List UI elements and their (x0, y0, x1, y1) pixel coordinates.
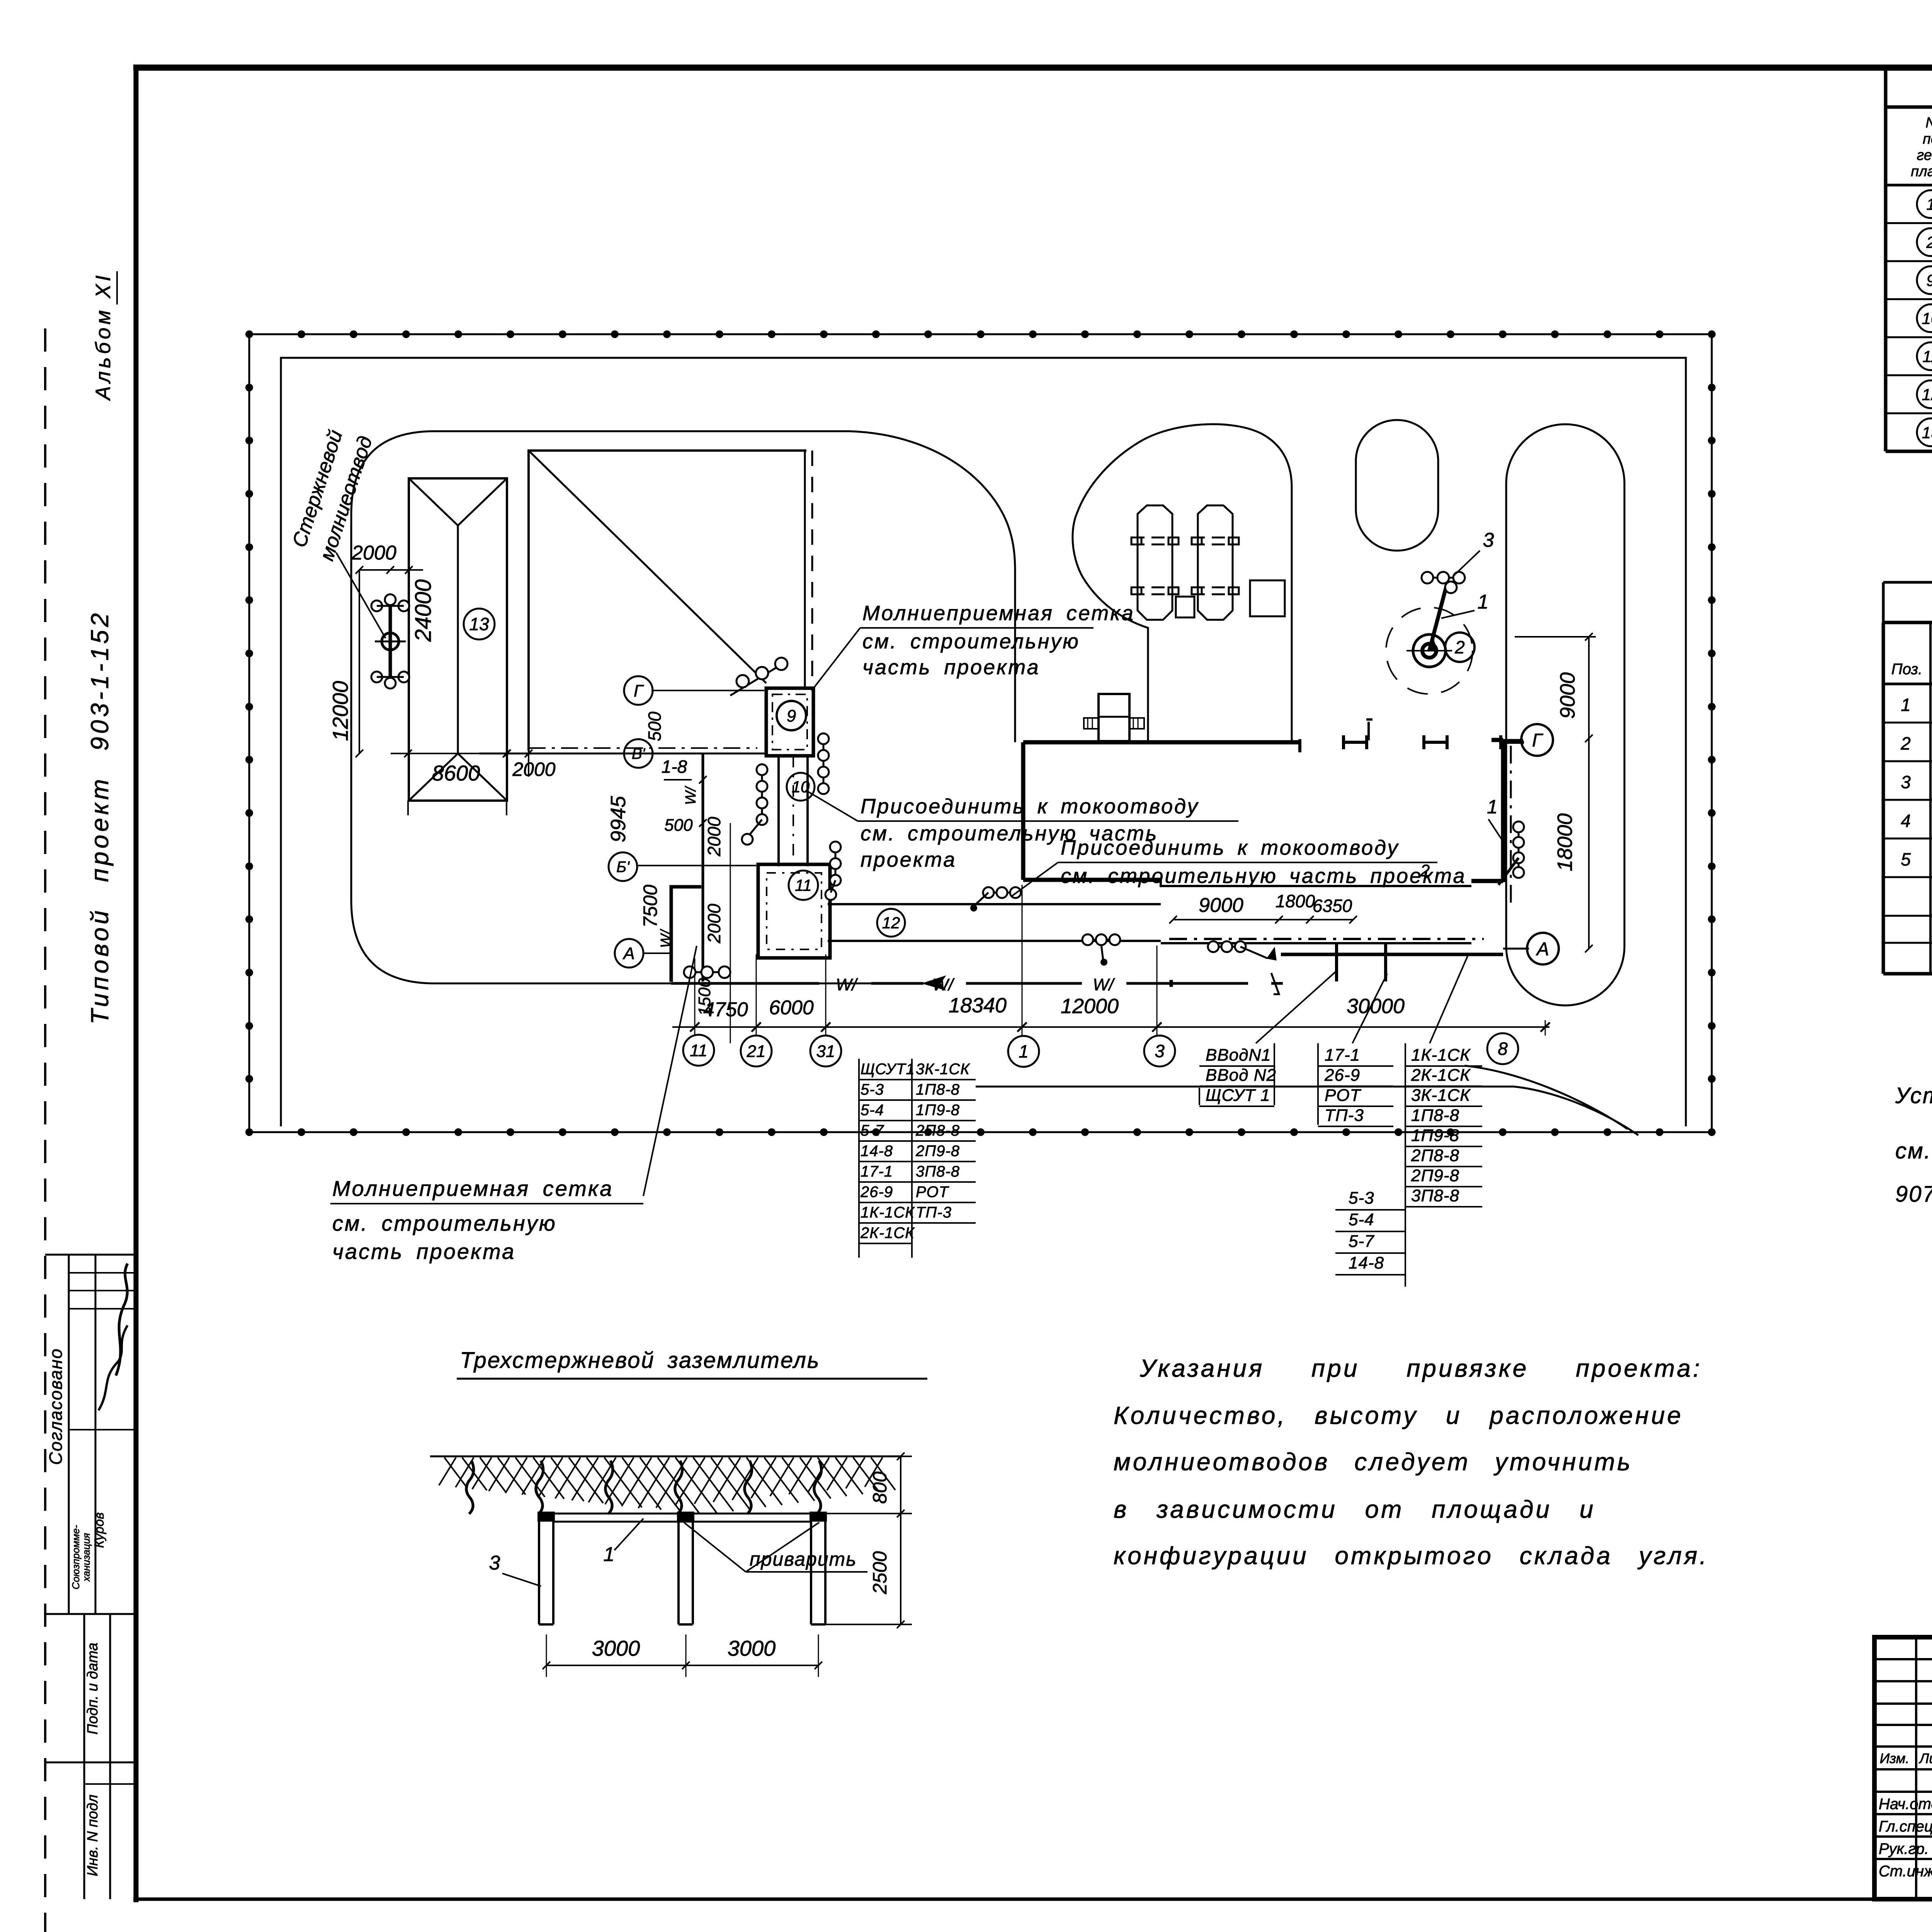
chain near W1 middle (988, 892, 1015, 894)
wing protrusion below building (1335, 943, 1338, 981)
svg-text:3: 3 (489, 1552, 500, 1574)
chain near 12000 (1088, 939, 1115, 941)
title block (1874, 1637, 1932, 1899)
svg-text:Рук.гр.: Рук.гр. (1879, 1840, 1929, 1857)
transformer symbol on top edge (1099, 694, 1129, 741)
signature squiggle (116, 1264, 128, 1376)
svg-text:4750: 4750 (703, 998, 748, 1021)
leader to rod (336, 553, 386, 638)
svg-text:ген-: ген- (1917, 147, 1932, 163)
svg-text:ЩСУТ1: ЩСУТ1 (861, 1061, 915, 1078)
svg-text:2К-1СК: 2К-1СК (1411, 1066, 1471, 1085)
svg-text:2000: 2000 (351, 542, 396, 564)
svg-text:3000: 3000 (592, 1636, 640, 1660)
explication row 1 (1917, 190, 1932, 218)
ground surface line (430, 1456, 902, 1458)
svg-text:проекта: проекта (861, 848, 956, 871)
svg-text:Союзпромме-: Союзпромме- (70, 1525, 82, 1589)
svg-text:1: 1 (1926, 195, 1932, 213)
svg-text:18340: 18340 (949, 994, 1007, 1017)
dashed gallery edge on right of square (804, 451, 806, 688)
leaders from boxes up to plan (1256, 970, 1338, 1043)
small tick above axis (1367, 722, 1370, 740)
svg-text:11: 11 (690, 1041, 707, 1060)
svg-text:в зависимости от площади: в зависимости от площади и (1114, 1495, 1595, 1523)
building 1 right edge (1501, 740, 1505, 882)
svg-text:5: 5 (1901, 849, 1911, 869)
circled 10 (787, 773, 815, 801)
svg-text:Куров: Куров (92, 1512, 107, 1548)
svg-text:ТП-3: ТП-3 (916, 1204, 952, 1221)
svg-text:3000: 3000 (728, 1636, 776, 1660)
svg-text:Типовой проект 903-1-152: Типовой проект 903-1-152 (86, 610, 114, 1024)
svg-text:см. в строительной части: см. в строительной части типового проект… (1895, 1138, 1932, 1163)
svg-text:6350: 6350 (1313, 896, 1352, 916)
svg-text:2П8-8: 2П8-8 (915, 1122, 960, 1139)
svg-text:Согласовано: Согласовано (46, 1348, 66, 1465)
svg-text:Подп. и дата: Подп. и дата (85, 1643, 101, 1735)
svg-text:2000: 2000 (704, 816, 724, 857)
svg-text:11: 11 (1922, 347, 1932, 366)
big square building with diagonal (529, 451, 806, 751)
building 1 left edge (1021, 742, 1026, 880)
svg-text:3П8-8: 3П8-8 (916, 1163, 960, 1180)
svg-text:Ст.инж.: Ст.инж. (1879, 1863, 1932, 1880)
explication row 11 (1917, 342, 1932, 370)
circled 13 (464, 609, 495, 639)
road loop (left) (351, 431, 905, 983)
svg-text:В': В' (632, 745, 646, 762)
building 1 lower wing (1161, 880, 1471, 886)
svg-text:14-8: 14-8 (1349, 1253, 1384, 1272)
svg-text:ВВод N2: ВВод N2 (1206, 1066, 1276, 1085)
svg-text:1: 1 (1478, 591, 1489, 613)
svg-text:W/: W/ (683, 786, 699, 805)
svg-text:3К-1СК: 3К-1СК (1411, 1086, 1471, 1105)
small square between hoppers (1176, 597, 1194, 617)
svg-text:Трехстержневой заземлитель: Трехстержневой заземлитель (460, 1348, 820, 1373)
svg-text:2: 2 (1420, 861, 1430, 880)
inner fence line (281, 358, 1686, 1126)
W1 cable route bottom (671, 982, 819, 985)
svg-text:молниеотводов следует уточ: молниеотводов следует уточнить (1114, 1448, 1633, 1476)
svg-text:А: А (622, 944, 634, 963)
svg-text:1П8-8: 1П8-8 (1411, 1106, 1459, 1125)
svg-text:Нач.отд.: Нач.отд. (1879, 1796, 1932, 1813)
svg-text:W/: W/ (1093, 975, 1115, 994)
svg-text:2000: 2000 (512, 759, 555, 780)
svg-text:5-7: 5-7 (861, 1122, 884, 1139)
svg-text:1П8-8: 1П8-8 (916, 1081, 960, 1098)
svg-text:N: N (1925, 115, 1932, 131)
svg-text:2: 2 (1454, 637, 1465, 657)
svg-text:2: 2 (1900, 733, 1911, 753)
svg-text:10: 10 (792, 778, 810, 796)
svg-text:2500: 2500 (869, 1551, 891, 1594)
road stadium right (1506, 424, 1624, 1005)
svg-text:12: 12 (882, 914, 900, 932)
building 11 crushing section (758, 864, 830, 958)
connecting strip (539, 1513, 825, 1515)
svg-text:18000: 18000 (1553, 813, 1577, 871)
explication row 13 (1917, 418, 1932, 446)
svg-text:7500: 7500 (639, 884, 661, 927)
svg-text:6000: 6000 (769, 997, 814, 1019)
svg-text:8: 8 (1498, 1039, 1508, 1059)
svg-text:9: 9 (1926, 271, 1932, 289)
axis circles left side (624, 676, 653, 705)
svg-text:Инв. N подл: Инв. N подл (85, 1794, 101, 1876)
svg-text:24000: 24000 (411, 579, 436, 642)
svg-text:Поз.: Поз. (1891, 661, 1923, 678)
svg-text:9: 9 (787, 706, 796, 725)
svg-text:1: 1 (604, 1543, 615, 1566)
svg-text:1800: 1800 (1276, 891, 1315, 911)
svg-text:Альбом XI: Альбом XI (92, 272, 115, 401)
explication row 10 (1917, 304, 1932, 332)
svg-text:Молниеприемная сетка: Молниеприемная сетка (862, 602, 1135, 625)
rod lightning arrester symbol (sterzhnevoy molnieotvod) (389, 602, 392, 681)
svg-text:2П8-8: 2П8-8 (1411, 1146, 1459, 1165)
svg-text:часть проекта: часть проекта (332, 1239, 515, 1264)
hoppers in blob (1138, 505, 1172, 620)
dims 9000 1800 6350 inside wing (1173, 919, 1353, 920)
road island blob (1073, 424, 1292, 742)
svg-text:Указания при привязке про: Указания при привязке проекта: (1139, 1354, 1702, 1382)
road oval (1356, 420, 1438, 551)
svg-text:4: 4 (1901, 811, 1911, 831)
svg-text:1К-1СК: 1К-1СК (1411, 1046, 1471, 1065)
svg-text:W/: W/ (836, 975, 858, 994)
svg-text:1-8: 1-8 (662, 757, 687, 777)
chain near building 3 mark (1213, 946, 1240, 948)
svg-text:ТП-3: ТП-3 (1325, 1106, 1364, 1125)
svg-text:1П9-8: 1П9-8 (1411, 1126, 1459, 1145)
dimension chain bottom (672, 1026, 1549, 1028)
svg-text:Гл.спец.: Гл.спец. (1879, 1818, 1932, 1835)
svg-text:2: 2 (1926, 233, 1932, 252)
svg-text:17-1: 17-1 (1325, 1046, 1360, 1065)
explication row 9 (1917, 266, 1932, 294)
circled 2 (1445, 633, 1475, 662)
road exit curves bottom right (1514, 1087, 1638, 1135)
svg-text:5-4: 5-4 (861, 1102, 884, 1119)
vertical dims 800 / 2500 (900, 1456, 901, 1624)
svg-text:1: 1 (1901, 695, 1911, 715)
explication row 12 (1917, 380, 1932, 408)
svg-text:12000: 12000 (328, 681, 352, 741)
svg-text:Количество, высоту и распол: Количество, высоту и расположение (1114, 1401, 1683, 1429)
gallery 10 corridor (777, 756, 780, 866)
grounding contour dash-dot around building 1 (1169, 938, 1484, 940)
building 13 coal storage (409, 478, 507, 801)
dim 2000 on B-prime (503, 750, 511, 757)
svg-text:ханизация: ханизация (80, 1533, 92, 1582)
svg-text:3К-1СК: 3К-1СК (916, 1061, 970, 1078)
lightning down-conductor chains (circle chains) (823, 739, 825, 789)
svg-text:Изм.: Изм. (1880, 1750, 1910, 1766)
explication row 2 (1917, 228, 1932, 256)
bottom dims 3000 3000 (546, 1665, 818, 1666)
svg-text:1: 1 (1487, 796, 1498, 818)
bigger square right (1250, 580, 1285, 616)
svg-text:5-4: 5-4 (1349, 1210, 1374, 1229)
gallery 12 corridor (828, 903, 1161, 905)
svg-text:см. строительную: см. строительную (862, 630, 1080, 653)
leader line from cable table row to right (976, 1086, 1514, 1088)
svg-text:ВВодN1: ВВодN1 (1206, 1046, 1271, 1065)
small marks on W1 (1170, 980, 1173, 987)
svg-text:9000: 9000 (1556, 672, 1579, 719)
svg-text:8600: 8600 (432, 761, 480, 785)
svg-text:1К-1СК: 1К-1СК (861, 1204, 915, 1221)
sheet trim edge left (dashed) (44, 328, 46, 1932)
road corner curve to boiler house (849, 431, 1015, 742)
svg-text:10: 10 (1922, 310, 1932, 328)
chimney (2) (1386, 607, 1473, 694)
svg-text:2П9-8: 2П9-8 (915, 1143, 960, 1160)
svg-text:ЩСУТ 1: ЩСУТ 1 (1206, 1086, 1270, 1105)
receiving box 9 (766, 688, 813, 756)
svg-text:13: 13 (1922, 423, 1932, 442)
svg-text:5-7: 5-7 (1349, 1232, 1374, 1251)
svg-text:26-9: 26-9 (1324, 1066, 1360, 1085)
svg-text:см. строительную: см. строительную (332, 1211, 557, 1235)
chain right building edge (1518, 827, 1520, 872)
building 1 bottom edge left part (1023, 878, 1161, 882)
svg-text:Присоединить к токоотводу: Присоединить к токоотводу (1061, 836, 1399, 859)
circled column refs (683, 1035, 714, 1066)
svg-text:12000: 12000 (1061, 995, 1119, 1018)
svg-text:Молниеприемная сетка: Молниеприемная сетка (332, 1176, 613, 1201)
axis B-prime line / square bottom (479, 753, 766, 755)
svg-text:Г: Г (634, 681, 644, 700)
svg-text:Лист: Лист (1919, 1750, 1932, 1766)
svg-text:2000: 2000 (704, 903, 724, 944)
svg-text:W/: W/ (658, 929, 674, 948)
column markers on axis (1344, 741, 1367, 744)
svg-text:21: 21 (747, 1042, 766, 1061)
svg-text:см. строительную часть проек: см. строительную часть проекта (1061, 864, 1466, 888)
svg-text:12: 12 (1922, 385, 1932, 403)
svg-text:13: 13 (469, 614, 489, 634)
explication table (1884, 68, 1888, 451)
svg-text:РОТ: РОТ (916, 1184, 949, 1201)
svg-text:Б': Б' (616, 859, 630, 876)
svg-text:А: А (1536, 939, 1549, 959)
svg-text:9945: 9945 (607, 796, 630, 842)
rods (538, 1512, 540, 1624)
svg-text:3: 3 (1155, 1041, 1165, 1061)
svg-text:907-2-134с.: 907-2-134с. (1895, 1182, 1932, 1207)
svg-text:РОТ: РОТ (1325, 1086, 1362, 1105)
dim ticks left column (699, 776, 707, 784)
svg-text:3: 3 (1901, 772, 1911, 792)
svg-text:плану: плану (1911, 163, 1932, 180)
svg-text:по: по (1923, 131, 1932, 147)
left margin approval table (45, 1254, 136, 1256)
spec title box (1883, 581, 1932, 584)
axis circles right side (1521, 724, 1553, 756)
dim 9000/18000 right (1588, 637, 1590, 949)
svg-text:1П9-8: 1П9-8 (916, 1102, 960, 1119)
dim 8600 / 2000 bottom (391, 753, 479, 754)
dotted site boundary (249, 333, 1712, 335)
svg-text:31: 31 (816, 1042, 835, 1061)
svg-text:2К-1СК: 2К-1СК (860, 1225, 915, 1242)
svg-text:2П9-8: 2П9-8 (1411, 1166, 1459, 1185)
svg-text:3П8-8: 3П8-8 (1411, 1186, 1459, 1205)
chimney rod cluster (1429, 583, 1447, 651)
svg-text:Установку молниеотвода на: Установку молниеотвода на дымовой трубе (1895, 1083, 1932, 1108)
svg-text:17-1: 17-1 (861, 1163, 893, 1180)
svg-text:часть проекта: часть проекта (862, 656, 1040, 679)
svg-text:9000: 9000 (1199, 894, 1243, 917)
boiler house building 1 top edge (1023, 740, 1300, 745)
drawing frame (133, 65, 1932, 71)
svg-text:3: 3 (1483, 529, 1494, 551)
svg-text:500: 500 (645, 711, 665, 741)
svg-text:11: 11 (795, 876, 812, 895)
svg-text:Г: Г (1532, 730, 1544, 751)
svg-text:5-3: 5-3 (1349, 1189, 1374, 1207)
extension lines from chain (694, 958, 696, 1036)
svg-text:500: 500 (664, 816, 693, 835)
svg-text:конфигурации открытого скл: конфигурации открытого склада угля. (1114, 1542, 1709, 1570)
svg-text:14-8: 14-8 (861, 1143, 893, 1160)
svg-text:800: 800 (869, 1471, 891, 1504)
svg-text:5-3: 5-3 (861, 1081, 884, 1098)
hatched soil band (439, 1458, 895, 1514)
svg-text:Присоединить к токоотводу: Присоединить к токоотводу (861, 795, 1199, 818)
svg-text:1: 1 (1019, 1041, 1029, 1061)
svg-text:26-9: 26-9 (860, 1184, 893, 1201)
cable line vertical W1 (702, 753, 704, 981)
annex left of building 11 (671, 887, 701, 982)
